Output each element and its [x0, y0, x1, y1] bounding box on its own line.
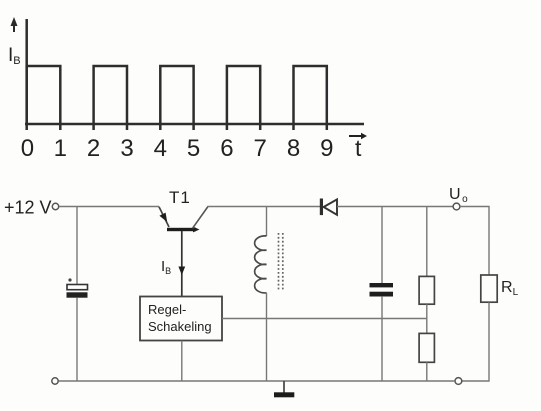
- ground stub wire: [283, 381, 285, 393]
- transistor T1 emitter lead: [159, 207, 169, 227]
- diode D1 triangle: [324, 199, 337, 214]
- resistor R2 (lower divider): [419, 333, 434, 362]
- svg-text:1: 1: [54, 135, 67, 162]
- bottom return terminal (open circle): [455, 378, 462, 385]
- svg-text:t: t: [355, 135, 362, 161]
- output terminal (open circle): [453, 203, 460, 210]
- inductor L1 (coil): [255, 236, 267, 293]
- capacitor C1 polarity mark: [68, 278, 71, 281]
- inductor L1 core (dashed lines): [279, 233, 283, 291]
- capacitor C1 bottom plate: [67, 292, 88, 297]
- t axis label with vector arrow: [349, 133, 367, 161]
- svg-text:5: 5: [187, 135, 200, 162]
- transistor base lead down: [181, 231, 183, 297]
- svg-text:T1: T1: [169, 188, 191, 207]
- svg-text:+12 V: +12 V: [4, 198, 52, 218]
- bottom rail wire: [59, 380, 455, 382]
- wire: diode to output node: [337, 206, 453, 208]
- svg-text:Schakeling: Schakeling: [148, 319, 212, 334]
- wire: +12V rail to transistor emitter: [59, 206, 159, 208]
- capacitor C1 (electrolytic, top plate hollow): [67, 285, 88, 290]
- wire: inductor branch top: [266, 207, 268, 237]
- wire: RL to bottom right corner: [462, 302, 489, 381]
- capacitor C2 bottom plate: [370, 292, 394, 297]
- svg-text:0: 0: [21, 135, 34, 162]
- square wave pulses I_B(t): [27, 66, 327, 130]
- diode D1 cathode bar: [320, 199, 323, 216]
- wire: output cap to bottom rail: [381, 296, 383, 381]
- wire: lower resistor to bottom rail: [426, 362, 428, 381]
- wire: divider branch top: [426, 207, 428, 277]
- wire: output terminal to right corner and down to RL: [460, 207, 489, 276]
- input terminal (open circle): [52, 203, 58, 209]
- svg-text:7: 7: [254, 135, 267, 162]
- wire: control box to bottom rail: [181, 341, 183, 382]
- transistor T1 base bar: [167, 228, 196, 231]
- wire: left branch down to capacitor: [76, 207, 78, 286]
- svg-text:8: 8: [287, 135, 300, 162]
- resistor RL: [481, 275, 497, 302]
- wire: collector to diode: [208, 206, 321, 208]
- wire: feedback line from box to divider: [222, 318, 427, 320]
- waveform vertical axis: [25, 19, 28, 130]
- control box U1 Regel-Schakeling: [140, 297, 222, 341]
- transistor T1 bar right arrowhead: [193, 227, 200, 233]
- y-axis arrow: [11, 17, 18, 32]
- svg-text:6: 6: [220, 135, 233, 162]
- svg-text:2: 2: [87, 135, 100, 162]
- wire: inductor to bottom rail: [266, 293, 268, 381]
- base current arrow I_B: [178, 267, 185, 276]
- wire: output cap branch top: [381, 207, 383, 284]
- x-axis tick labels 0-9: [21, 135, 334, 162]
- transistor T1 collector lead: [193, 207, 209, 229]
- resistor R1 (upper divider): [419, 276, 434, 304]
- svg-text:3: 3: [120, 135, 133, 162]
- svg-text:4: 4: [154, 135, 167, 162]
- svg-text:9: 9: [320, 135, 333, 162]
- bottom left terminal (open circle): [52, 378, 58, 384]
- svg-text:Regel-: Regel-: [148, 302, 186, 317]
- ground symbol: [274, 392, 294, 397]
- waveform time axis (baseline): [25, 123, 364, 126]
- wire: capacitor to bottom rail: [76, 298, 78, 381]
- transistor T1 emitter arrow (PNP): [159, 213, 167, 222]
- wire: between divider resistors: [426, 304, 428, 333]
- capacitor C2 top plate: [370, 283, 394, 287]
